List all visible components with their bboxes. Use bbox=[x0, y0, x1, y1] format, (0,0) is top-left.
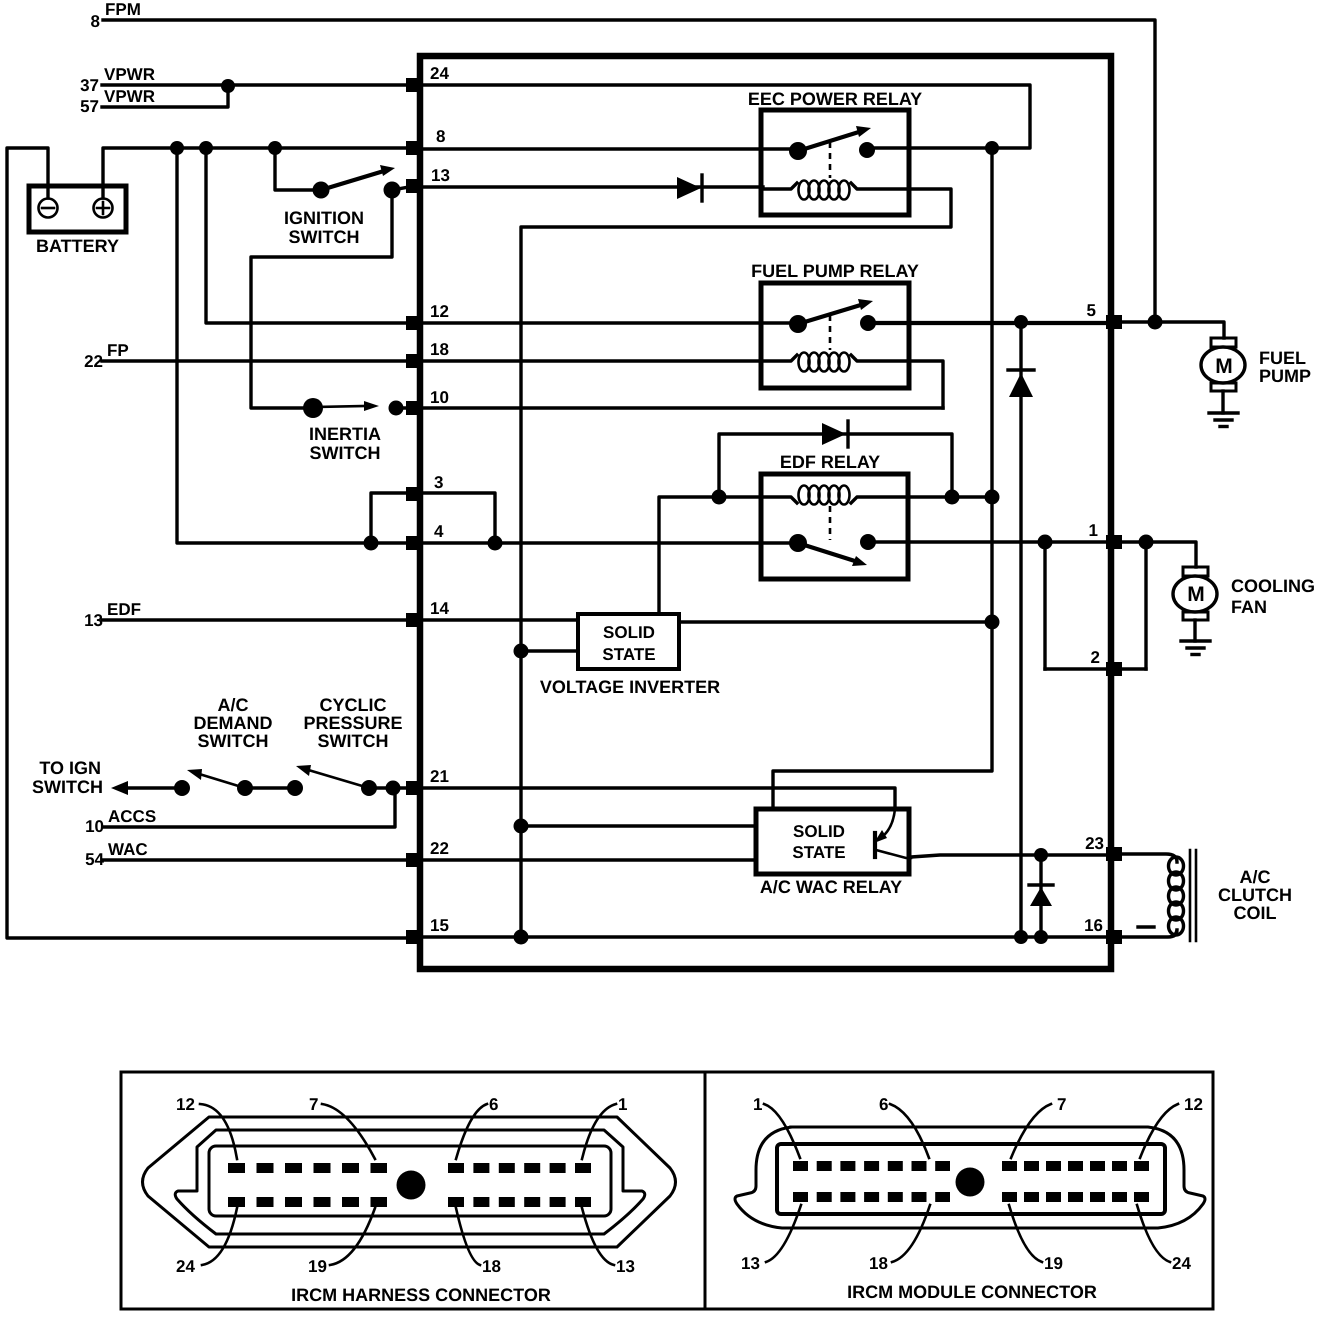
pin 24 bbox=[406, 78, 422, 92]
svg-text:15: 15 bbox=[430, 916, 449, 935]
wire ACCS circuit 10 to pin 21 node bbox=[103, 790, 395, 827]
svg-text:12: 12 bbox=[176, 1095, 195, 1114]
svg-text:10: 10 bbox=[430, 388, 449, 407]
connector panel divider bbox=[704, 1072, 707, 1309]
wire FPM (circuit 8) to fuel pump node bbox=[103, 20, 1155, 320]
cooling fan motor M2 bbox=[1173, 567, 1217, 620]
wire pin 21 to A/C WAC relay bbox=[420, 788, 895, 809]
svg-text:18: 18 bbox=[482, 1257, 501, 1276]
svg-text:VPWR: VPWR bbox=[104, 87, 155, 106]
junction inverter right / keep-alive rail bbox=[985, 615, 1000, 630]
wire pin 15 to pin 16 ground line bbox=[420, 935, 1106, 938]
pin 21 bbox=[406, 781, 422, 795]
pin 16 bbox=[1106, 930, 1122, 944]
connector panel frame bbox=[121, 1072, 1213, 1309]
wire A/C clutch coil return to pin 16 bbox=[1121, 930, 1177, 937]
svg-text:A/C WAC RELAY: A/C WAC RELAY bbox=[760, 877, 902, 897]
svg-text:13: 13 bbox=[741, 1254, 760, 1273]
svg-text:13: 13 bbox=[84, 611, 103, 630]
svg-text:22: 22 bbox=[430, 839, 449, 858]
svg-text:M: M bbox=[1187, 583, 1205, 606]
junction clamp diode / pin 15 line bbox=[1014, 930, 1028, 944]
wire pin 2 outer strap bbox=[1144, 542, 1147, 669]
pin 3 bbox=[406, 487, 422, 501]
junction internal rail / WAC input bbox=[514, 819, 529, 834]
svg-text:FUEL PUMP RELAY: FUEL PUMP RELAY bbox=[751, 261, 919, 281]
svg-text:1: 1 bbox=[753, 1095, 762, 1114]
svg-text:COIL: COIL bbox=[1234, 903, 1277, 923]
pin 22 bbox=[406, 853, 422, 867]
cyclic pressure switch S4 bbox=[296, 765, 420, 796]
svg-text:COOLING: COOLING bbox=[1231, 576, 1315, 596]
svg-text:M: M bbox=[1215, 355, 1233, 378]
EEC relay switch bbox=[789, 126, 875, 160]
junction VPWR 37/57 bbox=[221, 79, 235, 93]
wire pin 2 inner strap bbox=[1043, 542, 1046, 669]
svg-text:12: 12 bbox=[430, 302, 449, 321]
wire battery feed branch to pin 12 bbox=[206, 148, 420, 323]
EEC power relay K1 bbox=[761, 110, 909, 215]
svg-text:18: 18 bbox=[869, 1254, 888, 1273]
junction internal rail / pin 15 line bbox=[514, 930, 529, 945]
WAC relay transistor Q1 bbox=[874, 809, 911, 858]
svg-text:FAN: FAN bbox=[1231, 597, 1267, 617]
A/C demand switch S3 bbox=[174, 769, 303, 796]
svg-text:SWITCH: SWITCH bbox=[318, 731, 389, 751]
pin 8 bbox=[406, 141, 422, 155]
wire battery feed to ignition switch bbox=[275, 148, 321, 190]
wire WAC circuit 54 to pin 22 bbox=[102, 858, 420, 861]
battery B1 bbox=[29, 186, 126, 232]
wire pin 23 to A/C clutch coil bbox=[1121, 854, 1177, 862]
svg-text:STATE: STATE bbox=[602, 645, 655, 664]
wire battery negative to pin 15 bbox=[7, 148, 420, 938]
pin 18 bbox=[406, 354, 422, 368]
svg-text:A/C: A/C bbox=[218, 695, 249, 715]
IRCM module box bbox=[420, 56, 1111, 969]
svg-text:FUEL: FUEL bbox=[1259, 348, 1306, 368]
svg-text:1: 1 bbox=[1089, 521, 1098, 540]
svg-text:SOLID: SOLID bbox=[793, 822, 845, 841]
solid state voltage inverter U1 bbox=[578, 614, 679, 669]
fuel pump relay armature dashed link bbox=[829, 315, 832, 350]
svg-text:13: 13 bbox=[616, 1257, 635, 1276]
wire VPWR circuit 37 to pin 24 bbox=[102, 83, 417, 86]
module connector pin field rectangle bbox=[777, 1144, 1165, 1214]
pin 12 bbox=[406, 316, 422, 330]
svg-text:24: 24 bbox=[430, 64, 449, 83]
junction pin 3 strap left / pin 4 line bbox=[364, 536, 379, 551]
junction EDF coil left / diode branch bbox=[712, 490, 727, 505]
clamp diode CR2 branch to ground line bbox=[1019, 322, 1022, 937]
svg-text:6: 6 bbox=[489, 1095, 498, 1114]
svg-text:19: 19 bbox=[1044, 1254, 1063, 1273]
svg-text:3: 3 bbox=[434, 473, 443, 492]
wire fuel pump relay coil return to pin 10 line bbox=[909, 361, 943, 408]
svg-text:VOLTAGE INVERTER: VOLTAGE INVERTER bbox=[540, 677, 720, 697]
fuel pump motor M1 bbox=[1201, 338, 1245, 391]
pin 1 bbox=[1106, 535, 1122, 549]
svg-text:VPWR: VPWR bbox=[104, 65, 155, 84]
svg-text:54: 54 bbox=[85, 850, 104, 869]
wire FP circuit 22 to pin 18 bbox=[102, 359, 420, 362]
svg-text:SWITCH: SWITCH bbox=[32, 777, 103, 797]
pin 15 bbox=[406, 930, 422, 944]
module connector top pin row bbox=[793, 1161, 950, 1171]
junction pin 23 / clutch diode branch bbox=[1034, 848, 1048, 862]
harness connector bottom pin row bbox=[228, 1197, 387, 1207]
svg-text:INERTIA: INERTIA bbox=[309, 424, 381, 444]
fuel pump relay switch bbox=[789, 299, 876, 333]
clutch clamp diode CR4 branch bbox=[1039, 855, 1042, 937]
IRCM harness connector outer shell bbox=[143, 1117, 676, 1247]
wire pin 13 to EEC relay coil bbox=[420, 185, 763, 188]
EDF relay switch bbox=[789, 534, 876, 566]
wire fuel pump relay output to pin 5 and fuel pump bbox=[868, 321, 1106, 325]
A/C WAC relay U2 bbox=[756, 809, 909, 874]
wire pin 3 strap left bbox=[371, 493, 407, 543]
ignition switch S1 bbox=[313, 165, 410, 199]
wire TO IGN SWITCH with arrow bbox=[124, 786, 182, 789]
wire VPWR circuit 57 joining circuit 37 bbox=[102, 87, 228, 107]
wire battery positive feed to pin 8 bbox=[103, 148, 420, 198]
junction clutch diode / pin 16 line bbox=[1034, 930, 1048, 944]
svg-text:2: 2 bbox=[1091, 648, 1100, 667]
ground cooling fan bbox=[1181, 620, 1210, 655]
pin 2 bbox=[1106, 662, 1122, 676]
wire internal rail to inverter left bbox=[521, 649, 578, 652]
fuel pump relay coil (pin 18) bbox=[420, 353, 909, 372]
junction internal rail / inverter feed bbox=[514, 644, 529, 659]
svg-text:FP: FP bbox=[107, 341, 129, 360]
wire WAC relay output to pin 23 bbox=[911, 855, 1106, 857]
wire ignition switch output to inertia switch bbox=[251, 190, 392, 408]
svg-text:BATTERY: BATTERY bbox=[36, 236, 119, 256]
EDF relay K3 bbox=[761, 474, 908, 579]
svg-text:21: 21 bbox=[430, 767, 449, 786]
wire pin 22 to WAC relay bbox=[420, 858, 756, 861]
junction pin 1 / pin 2 outer strap bbox=[1139, 535, 1154, 550]
svg-text:CLUTCH: CLUTCH bbox=[1218, 885, 1292, 905]
svg-text:DEMAND: DEMAND bbox=[194, 713, 273, 733]
wire internal rail to WAC relay input bbox=[521, 824, 756, 827]
svg-text:22: 22 bbox=[84, 352, 103, 371]
svg-text:SWITCH: SWITCH bbox=[310, 443, 381, 463]
svg-text:37: 37 bbox=[80, 76, 99, 95]
svg-text:24: 24 bbox=[176, 1257, 195, 1276]
svg-text:WAC: WAC bbox=[108, 840, 148, 859]
ground fuel pump bbox=[1209, 391, 1238, 427]
svg-text:IGNITION: IGNITION bbox=[284, 208, 364, 228]
EDF relay armature dashed link bbox=[829, 506, 832, 540]
label minus terminal bbox=[1138, 925, 1154, 928]
svg-text:10: 10 bbox=[85, 817, 104, 836]
svg-text:8: 8 bbox=[91, 12, 100, 31]
A/C clutch coil L1 bbox=[1169, 850, 1197, 941]
svg-text:16: 16 bbox=[1084, 916, 1103, 935]
pin 4 bbox=[406, 536, 422, 550]
svg-text:STATE: STATE bbox=[792, 843, 845, 862]
svg-text:7: 7 bbox=[1057, 1095, 1066, 1114]
svg-text:12: 12 bbox=[1184, 1095, 1203, 1114]
wire EDF relay output to pin 1 and cooling fan bbox=[868, 540, 1106, 543]
svg-text:8: 8 bbox=[436, 127, 445, 146]
module connector bottom pin row bbox=[793, 1192, 950, 1202]
IRCM harness connector inner shell bbox=[175, 1130, 645, 1234]
wire pin 2 stub bbox=[1045, 667, 1146, 670]
svg-text:14: 14 bbox=[430, 599, 449, 618]
svg-text:6: 6 bbox=[879, 1095, 888, 1114]
wire pin 10 to relay coil return bbox=[420, 406, 943, 409]
wire pin 3 strap right bbox=[421, 493, 495, 543]
junction battery feed / ignition switch branch bbox=[268, 141, 282, 155]
pin 23 bbox=[1106, 847, 1122, 861]
svg-text:ACCS: ACCS bbox=[108, 807, 156, 826]
EDF relay flyback diode CR3 branch bbox=[719, 434, 952, 498]
pin 10 bbox=[406, 401, 422, 415]
pin 13 bbox=[406, 179, 422, 193]
svg-text:PUMP: PUMP bbox=[1259, 366, 1311, 386]
svg-text:A/C: A/C bbox=[1240, 867, 1271, 887]
harness connector polarizing hole bbox=[397, 1171, 426, 1200]
svg-text:SOLID: SOLID bbox=[603, 623, 655, 642]
wire EDF circuit 13 to pin 14 bbox=[102, 618, 578, 621]
EEC relay coil bbox=[763, 181, 909, 200]
svg-text:CYCLIC: CYCLIC bbox=[320, 695, 387, 715]
junction EDF coil right / diode branch bbox=[945, 490, 960, 505]
svg-text:SWITCH: SWITCH bbox=[289, 227, 360, 247]
wire battery feed branch to pin 4 and EDF relay contact bbox=[177, 148, 798, 543]
junction pin 5 / clamp diode branch bbox=[1014, 315, 1028, 329]
svg-text:24: 24 bbox=[1172, 1254, 1191, 1273]
EEC relay armature dashed link bbox=[829, 142, 832, 178]
wire pin 24 VPWR to EEC relay contact bbox=[420, 85, 1030, 148]
junction battery feed / pin-4 branch bbox=[170, 141, 184, 155]
pin 5 bbox=[1106, 315, 1122, 329]
junction pin 5 / FPM tap bbox=[1148, 315, 1163, 330]
svg-text:EEC POWER RELAY: EEC POWER RELAY bbox=[748, 89, 922, 109]
svg-text:13: 13 bbox=[431, 166, 450, 185]
wire pin 12 to fuel pump relay switch bbox=[420, 321, 798, 324]
IRCM module connector outer shell bbox=[735, 1127, 1205, 1228]
wire inverter right to keep-alive rail bbox=[679, 620, 992, 623]
junction EEC output / keep-alive rail bbox=[985, 141, 999, 155]
harness connector pin field rectangle bbox=[209, 1146, 611, 1216]
svg-text:7: 7 bbox=[309, 1095, 318, 1114]
diode CR1 on pin 13 wire bbox=[677, 175, 702, 201]
harness connector top pin row bbox=[228, 1163, 387, 1173]
svg-text:TO IGN: TO IGN bbox=[39, 758, 101, 778]
wire inverter top to EDF coil bbox=[659, 497, 719, 614]
junction EDF coil right / keep-alive rail bbox=[985, 490, 1000, 505]
svg-text:57: 57 bbox=[80, 97, 99, 116]
svg-text:IRCM MODULE CONNECTOR: IRCM MODULE CONNECTOR bbox=[847, 1282, 1097, 1302]
svg-text:FPM: FPM bbox=[105, 0, 141, 19]
pin 14 bbox=[406, 613, 422, 627]
svg-text:1: 1 bbox=[618, 1095, 627, 1114]
wire pin 8 to EEC relay switch bbox=[420, 147, 798, 150]
junction pin 3 strap right / pin 4 line bbox=[488, 536, 503, 551]
svg-text:19: 19 bbox=[308, 1257, 327, 1276]
svg-text:EDF: EDF bbox=[107, 600, 141, 619]
svg-text:18: 18 bbox=[430, 340, 449, 359]
fuel pump relay K2 bbox=[761, 283, 909, 388]
wire EEC coil return loop to internal rail bbox=[521, 189, 951, 937]
svg-text:5: 5 bbox=[1087, 301, 1096, 320]
junction battery feed / pin-12 branch bbox=[199, 141, 213, 155]
svg-text:IRCM HARNESS CONNECTOR: IRCM HARNESS CONNECTOR bbox=[291, 1285, 551, 1305]
svg-text:SWITCH: SWITCH bbox=[198, 731, 269, 751]
inertia switch S2 bbox=[303, 398, 420, 418]
module connector polarizing hole bbox=[956, 1168, 985, 1197]
svg-text:4: 4 bbox=[434, 522, 444, 541]
svg-text:23: 23 bbox=[1085, 834, 1104, 853]
keep-alive power rail to WAC relay bbox=[773, 148, 992, 809]
svg-text:PRESSURE: PRESSURE bbox=[303, 713, 402, 733]
svg-text:EDF RELAY: EDF RELAY bbox=[780, 452, 880, 472]
junction pin 1 / pin 2 inner strap bbox=[1038, 535, 1053, 550]
EDF relay coil bbox=[719, 486, 992, 505]
